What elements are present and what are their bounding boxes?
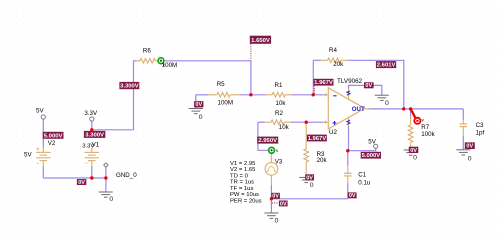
svg-text:20k: 20k: [333, 61, 344, 68]
svg-text:0: 0: [385, 100, 389, 107]
svg-text:2.950V: 2.950V: [258, 138, 277, 144]
wire 3.3V port to node: [91, 121, 93, 130]
op-amp plus sign: [333, 121, 337, 125]
wire R2 row left corner: [258, 121, 265, 123]
svg-text:10k: 10k: [276, 100, 287, 107]
wire riser to R6: [134, 61, 137, 130]
svg-text:PER = 20us: PER = 20us: [230, 198, 262, 204]
wire op-amp V- pin to ground net: [349, 85, 382, 95]
svg-text:TLV9062: TLV9062: [337, 78, 363, 85]
svg-text:5V: 5V: [368, 138, 376, 145]
node V3 ground rail junction: [270, 197, 273, 200]
wire V3 bottom to rail: [270, 185, 272, 199]
wire R5 row: [196, 94, 209, 96]
wire op-amp output row: [369, 108, 464, 110]
svg-text:100k: 100k: [421, 131, 435, 138]
label 0V at R7 ground: [409, 147, 419, 154]
label 2.950V at V3: [257, 137, 278, 145]
label 3.300V on riser wire: [119, 82, 139, 90]
capacitor C1: [344, 165, 351, 183]
label 0V at op-amp V- net: [364, 82, 374, 89]
wire R4 right to output drop: [347, 60, 404, 109]
svg-text:0V: 0V: [280, 201, 287, 207]
voltage source V2 battery: [36, 148, 50, 167]
wire R4 left drop to inverting node: [312, 60, 314, 95]
voltage probe on R6: [158, 58, 166, 67]
svg-text:0V: 0V: [195, 102, 202, 108]
wire R6 output to bend: [164, 61, 251, 95]
node output R4 junction: [402, 107, 405, 110]
label 0V at V3 bottom: [271, 193, 280, 200]
wire V2 bottom to ground rail: [42, 166, 44, 178]
wire ground rail V2 to GND_0: [43, 177, 106, 179]
wire C1 bottom to ground rail: [347, 183, 349, 199]
svg-text:C1: C1: [358, 172, 366, 179]
wire output node to R7: [410, 109, 412, 117]
svg-text:0.1u: 0.1u: [358, 179, 371, 186]
label 0V at C3 ground: [465, 142, 475, 149]
svg-text:1pf: 1pf: [476, 130, 485, 137]
svg-text:0V: 0V: [466, 144, 473, 150]
op-amp V- power pin stub: [348, 89, 350, 99]
resistor R6: [136, 59, 158, 64]
svg-text:R7: R7: [421, 124, 429, 131]
op-amp V+ pin marker: [347, 120, 350, 124]
svg-text:0: 0: [275, 217, 279, 224]
resistor R2: [265, 120, 292, 125]
wire V1 bottom to rail: [91, 166, 93, 178]
label 3.300V at V1: [84, 131, 105, 139]
label 1.967V at inverting input: [313, 79, 333, 86]
svg-text:R2: R2: [275, 110, 283, 117]
ground 0 at R7: [404, 150, 418, 155]
resistor R1: [265, 93, 292, 98]
svg-text:0: 0: [468, 156, 472, 163]
callout line for 1.650V label: [250, 44, 252, 60]
svg-text:V2 = 1.65: V2 = 1.65: [230, 167, 256, 173]
wire R2 to non-inverting input: [291, 121, 325, 123]
svg-text:5V: 5V: [36, 108, 44, 115]
ground 0 at R5 left: [189, 109, 203, 114]
node output R7 junction: [409, 107, 412, 110]
wire R4 row left: [313, 59, 321, 61]
svg-text:TF = 1us: TF = 1us: [230, 186, 253, 192]
label 5.000V at op-amp V+: [361, 152, 381, 159]
wire R5 to R1: [240, 94, 266, 96]
svg-text:TD = 0: TD = 0: [230, 173, 249, 179]
ground 0 at GND_0 rail: [99, 192, 113, 197]
svg-text:GND_0: GND_0: [116, 172, 137, 179]
svg-text:V2: V2: [48, 140, 56, 147]
svg-text:R5: R5: [217, 81, 225, 88]
svg-text:5.000V: 5.000V: [44, 133, 63, 139]
ground 0 at R3: [299, 177, 313, 182]
callout line for 1.967V label: [313, 86, 315, 94]
callout line for 0V label at V3 ground: [272, 202, 279, 204]
svg-text:3.3V: 3.3V: [84, 110, 98, 117]
wire R5 left to ground: [195, 95, 197, 109]
svg-text:0: 0: [109, 196, 113, 203]
svg-text:3.300V: 3.300V: [85, 132, 104, 138]
label 0V at C1 ground rail: [348, 192, 357, 199]
op-amp V+ power pin stub: [348, 118, 350, 127]
svg-text:0V: 0V: [349, 193, 356, 199]
port 3.3V at V1: [90, 117, 94, 121]
svg-text:100M: 100M: [162, 62, 177, 69]
node 5V supply junction: [346, 149, 349, 152]
svg-text:5V: 5V: [24, 152, 32, 159]
svg-text:2.601V: 2.601V: [377, 63, 396, 69]
svg-text:0V: 0V: [410, 148, 417, 154]
wire 5V port to V2 top: [42, 119, 44, 148]
svg-text:0V: 0V: [272, 194, 279, 200]
voltage probe on V3: [269, 147, 279, 153]
capacitor C3: [460, 119, 467, 135]
ground 0 at op-amp V- net: [375, 95, 389, 100]
label 0V on bottom rail: [77, 179, 86, 186]
wire R1 to inverting input: [292, 94, 325, 96]
port GND_0 diamond: [104, 163, 108, 167]
svg-text:TR = 1us: TR = 1us: [230, 180, 254, 186]
svg-text:1.650V: 1.650V: [251, 38, 270, 44]
wire 3.3V node to riser: [92, 129, 134, 131]
wire 5V node to 5V port: [348, 148, 376, 150]
svg-text:C3: C3: [476, 122, 484, 129]
svg-text:0V: 0V: [78, 180, 85, 186]
label 5.000V at V2: [43, 132, 64, 140]
voltage source V1 battery: [85, 148, 99, 167]
wire op-amp V+ pin down to 5V node: [348, 126, 350, 150]
node GND_0 junction: [104, 176, 107, 179]
svg-text:V3: V3: [275, 159, 283, 166]
svg-text:0: 0: [310, 182, 314, 189]
resistor R4: [321, 58, 348, 63]
op-amp inverting input pin: [323, 93, 328, 97]
svg-text:OUT: OUT: [352, 106, 365, 113]
op-amp minus sign: [333, 95, 336, 97]
svg-text:V1 = 2.95: V1 = 2.95: [230, 161, 256, 167]
node R5 R1 junction: [249, 93, 252, 96]
svg-text:5.000V: 5.000V: [362, 153, 381, 159]
svg-text:10k: 10k: [279, 124, 290, 131]
svg-text:0V: 0V: [306, 175, 313, 181]
wire V3 rail to ground 0: [270, 199, 272, 213]
ground 0 at V3 rail: [264, 213, 278, 218]
label 1.650V at R6 output: [250, 36, 271, 44]
wire GND_0 diamond stem: [105, 167, 107, 178]
wire C3 bottom to ground: [462, 136, 464, 150]
port 5V at op-amp supply: [374, 144, 378, 148]
resistor R3: [304, 124, 309, 174]
label 0V at R3 ground: [305, 174, 314, 181]
label 0V at R5 ground: [194, 101, 203, 108]
svg-text:U2: U2: [329, 129, 337, 136]
voltage probe on R7 output: [411, 109, 425, 124]
op-amp V- pin marker: [347, 91, 350, 95]
svg-text:100M: 100M: [218, 99, 233, 106]
node non-inverting input junction: [305, 121, 308, 124]
svg-text:0: 0: [199, 114, 203, 121]
wire rail to ground 0: [105, 178, 107, 192]
resistor R7: [408, 116, 413, 148]
port 5V at V2: [41, 115, 45, 119]
wire 5V node down to C1: [347, 151, 349, 166]
op-amp U2 TLV9062: [323, 88, 369, 129]
svg-text:PW = 10us: PW = 10us: [230, 192, 259, 198]
node inverting input junction: [312, 93, 315, 96]
svg-text:1.967V: 1.967V: [314, 80, 333, 86]
label 2.601V at op-amp output: [376, 61, 396, 69]
svg-text:1.967V: 1.967V: [308, 136, 327, 142]
node V1 bottom rail junction: [90, 176, 93, 179]
svg-text:R6: R6: [143, 47, 151, 54]
resistor R5: [208, 93, 240, 98]
op-amp non-inverting input pin: [323, 120, 328, 124]
svg-text:0V: 0V: [365, 83, 372, 89]
pulse source V3: [265, 153, 278, 185]
wire V3 ground rail: [271, 198, 347, 200]
svg-text:0: 0: [413, 155, 417, 162]
ground 0 at C3: [456, 150, 470, 155]
svg-text:20k: 20k: [317, 157, 328, 164]
label 0V callout at V3 ground: [279, 201, 288, 208]
svg-text:R4: R4: [329, 47, 337, 54]
node 3.3V junction: [90, 128, 93, 131]
wire R2 corner down to V3: [258, 122, 269, 150]
svg-text:R1: R1: [275, 82, 283, 89]
svg-text:3.300V: 3.300V: [120, 84, 139, 90]
wire output to C3: [462, 109, 464, 120]
svg-text:V1: V1: [92, 142, 100, 149]
label 1.967V at non-inverting input: [307, 135, 327, 142]
